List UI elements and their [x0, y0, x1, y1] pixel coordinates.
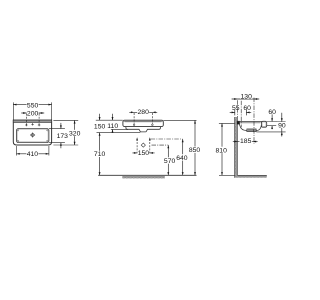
extension rim top left [96, 119, 123, 121]
recommended waste height line (dash-dot) [152, 144, 169, 146]
svg-text:173: 173 [57, 133, 69, 140]
dim 60 (wall to hole) [235, 105, 251, 115]
dim 150 (bottom, between supplies) [132, 150, 154, 157]
extension siphon bottom left [97, 132, 141, 134]
svg-text:60: 60 [243, 105, 251, 112]
faucet hole right [38, 124, 41, 127]
svg-text:570: 570 [164, 158, 176, 165]
dim 410 extension lines [17, 146, 49, 156]
fixing bolt (black) [237, 121, 240, 125]
drain center mark (front) [141, 143, 145, 147]
dim 710 shared line with 150 lower arrow [94, 133, 106, 176]
svg-text:410: 410 [27, 151, 39, 158]
dim 550 extension lines [13, 102, 51, 120]
dim 110 [107, 114, 118, 133]
extension rim top right [164, 119, 197, 121]
basin inner bowl rim (plan) [17, 129, 49, 143]
dim 55 [230, 105, 240, 113]
dim 280 dashed extensions [134, 113, 152, 124]
svg-text:150: 150 [94, 124, 106, 131]
dim 185 [233, 138, 258, 145]
drain fitting (side, hatched) [247, 129, 256, 132]
basin front profile [123, 120, 163, 132]
svg-text:90: 90 [278, 122, 286, 129]
dim 550 [13, 102, 51, 110]
dim 640 [176, 139, 188, 175]
dim 810 floor extension [219, 174, 235, 176]
extension rim top right (side) [267, 121, 286, 123]
floor line (front) [98, 174, 196, 176]
recommended supply height line (dash-dot) [151, 138, 183, 140]
faucet hole left [25, 124, 28, 127]
bowl (side) [239, 123, 261, 130]
dim 150 (left) [94, 114, 106, 131]
dim 173 [57, 123, 69, 148]
dim 810 extension top [219, 122, 235, 124]
extension lip bottom (side) [267, 125, 276, 127]
dim 280 [129, 108, 157, 116]
svg-text:130: 130 [241, 93, 253, 100]
svg-text:320: 320 [69, 130, 81, 137]
extension basin underside left [111, 128, 128, 130]
dim 173 extension lines [49, 129, 65, 143]
centerline wall offset (dash-dot) [237, 100, 241, 127]
floor hatch (front) [122, 176, 165, 179]
faucet hole center [31, 123, 34, 126]
dim 90 [277, 113, 286, 137]
fixing holes (front) [133, 124, 153, 126]
dim 410 [17, 151, 49, 159]
svg-text:280: 280 [138, 109, 150, 116]
floor section (hatched, side) [237, 175, 266, 177]
basin back ledge (gray band) [13, 120, 51, 122]
dim 850 [188, 120, 200, 175]
svg-text:810: 810 [216, 147, 228, 154]
svg-text:200: 200 [27, 110, 39, 117]
svg-text:550: 550 [27, 102, 39, 109]
dim 200 [21, 110, 44, 118]
svg-text:110: 110 [107, 123, 118, 130]
supply line left (dashed with arrow) [136, 137, 138, 153]
svg-text:640: 640 [176, 155, 188, 162]
basin outer body (plan) [13, 120, 51, 145]
drain (plan) [30, 133, 35, 138]
svg-text:60: 60 [268, 109, 276, 116]
svg-text:55: 55 [232, 105, 240, 112]
bowl corner radii marks [17, 130, 47, 142]
svg-text:850: 850 [189, 147, 201, 154]
dim 570 [164, 145, 176, 175]
wall section (hatched) [235, 117, 238, 178]
supply line right (dashed with arrow) [149, 137, 151, 153]
dim 130 [232, 93, 260, 100]
extension drain bottom (side) [256, 131, 285, 133]
svg-text:710: 710 [94, 151, 106, 158]
dim 320 [69, 120, 81, 145]
dim 60 (rim to lip bottom) [268, 109, 276, 129]
dim 810 [215, 123, 227, 175]
centerline drain (dash-dot) [253, 98, 255, 144]
dim 200 dashed extensions [26, 114, 39, 127]
front lip (side) [261, 121, 266, 127]
basin rim (side) [237, 122, 262, 123]
dim 320 extension lines [53, 120, 78, 145]
svg-text:185: 185 [240, 138, 252, 145]
svg-text:150: 150 [138, 150, 150, 157]
